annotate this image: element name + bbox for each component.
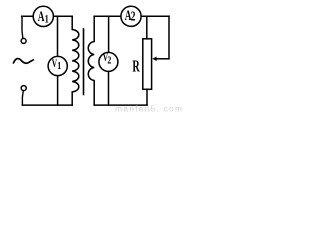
resistor R body — [143, 39, 152, 90]
rheostat wiper arrow — [152, 57, 169, 61]
svg-text:1: 1 — [45, 13, 49, 26]
terminal top AC input — [21, 16, 26, 43]
wire top of secondary loop — [94, 15, 169, 17]
ammeter A2 — [121, 6, 141, 26]
svg-text:A: A — [38, 8, 45, 25]
wire V1 branch upper — [57, 16, 59, 56]
AC source tilde — [14, 59, 34, 64]
wire V2 branch upper — [108, 16, 110, 52]
secondary coil — [88, 16, 94, 105]
voltmeter V1 — [48, 56, 67, 75]
wire V1 branch lower — [57, 76, 59, 105]
svg-text:V: V — [52, 57, 57, 70]
wire right vertical from A2 corner — [168, 16, 170, 59]
wire R bottom stub — [146, 89, 148, 105]
label R — [132, 58, 140, 76]
primary coil — [72, 16, 79, 105]
svg-text:manfen5. com: manfen5. com — [115, 104, 183, 114]
transformer core — [83, 29, 85, 95]
wire V2 branch lower — [108, 72, 110, 106]
wire bottom of primary loop — [22, 104, 72, 106]
svg-text:2: 2 — [107, 54, 111, 67]
voltmeter V2 — [99, 52, 118, 72]
terminal bottom AC input — [21, 86, 26, 106]
svg-text:1: 1 — [57, 60, 61, 73]
wire top of primary loop — [22, 15, 72, 17]
ammeter A1 — [33, 6, 53, 26]
wire bottom of secondary loop — [94, 104, 147, 106]
svg-text:R: R — [132, 58, 140, 76]
svg-text:2: 2 — [131, 9, 136, 24]
wire R top stub — [146, 16, 148, 39]
